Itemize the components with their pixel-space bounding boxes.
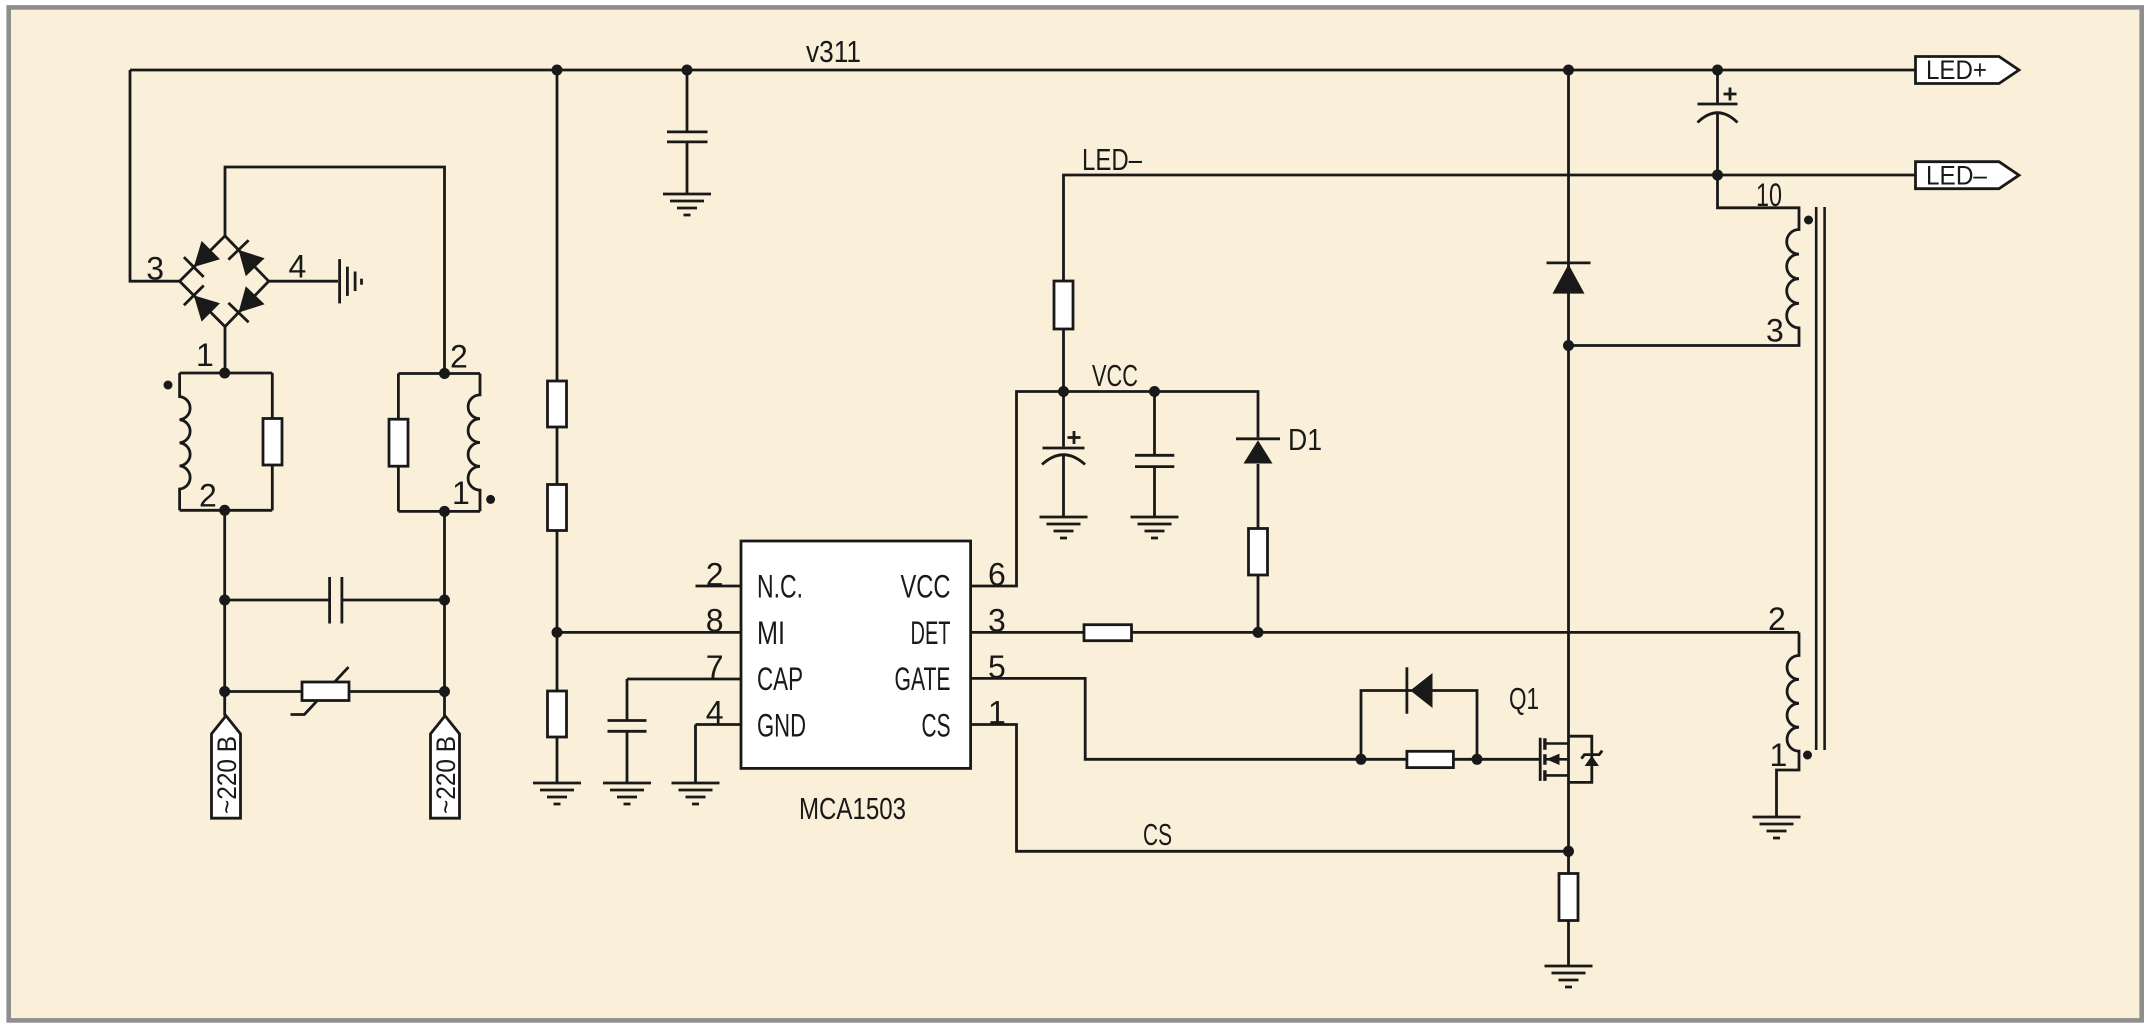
svg-text:GATE: GATE: [895, 661, 951, 697]
svg-text:4: 4: [706, 695, 724, 731]
svg-text:3: 3: [1766, 313, 1784, 349]
svg-text:MI: MI: [757, 615, 785, 651]
svg-text:1: 1: [452, 475, 470, 511]
svg-text:5: 5: [988, 649, 1006, 685]
svg-text:CAP: CAP: [757, 661, 803, 697]
svg-text:MCA1503: MCA1503: [799, 791, 906, 826]
svg-text:2: 2: [450, 339, 468, 375]
svg-text:v311: v311: [806, 34, 861, 69]
svg-text:GND: GND: [757, 708, 806, 744]
svg-text:8: 8: [706, 603, 724, 639]
svg-text:VCC: VCC: [901, 569, 951, 605]
svg-text:DET: DET: [911, 615, 951, 651]
svg-text:CS: CS: [1143, 817, 1172, 852]
svg-text:~220 В: ~220 В: [431, 736, 461, 814]
svg-text:3: 3: [146, 251, 164, 287]
svg-text:LED+: LED+: [1926, 55, 1987, 85]
svg-text:6: 6: [988, 557, 1006, 593]
svg-text:3: 3: [988, 603, 1006, 639]
svg-text:VCC: VCC: [1092, 358, 1138, 393]
svg-text:1: 1: [988, 695, 1006, 731]
svg-text:1: 1: [196, 337, 214, 373]
svg-text:4: 4: [289, 249, 307, 285]
svg-text:10: 10: [1756, 177, 1782, 213]
svg-text:1: 1: [1770, 737, 1788, 773]
svg-text:~220 В: ~220 В: [212, 736, 242, 814]
svg-text:7: 7: [706, 649, 724, 685]
svg-text:2: 2: [199, 478, 217, 514]
svg-text:LED–: LED–: [1082, 142, 1143, 177]
svg-text:LED–: LED–: [1926, 161, 1987, 191]
svg-text:N.C.: N.C.: [757, 569, 803, 605]
svg-text:CS: CS: [922, 708, 951, 744]
svg-text:2: 2: [1768, 601, 1786, 637]
svg-text:D1: D1: [1288, 422, 1322, 457]
svg-text:2: 2: [706, 557, 724, 593]
svg-text:Q1: Q1: [1509, 681, 1539, 716]
